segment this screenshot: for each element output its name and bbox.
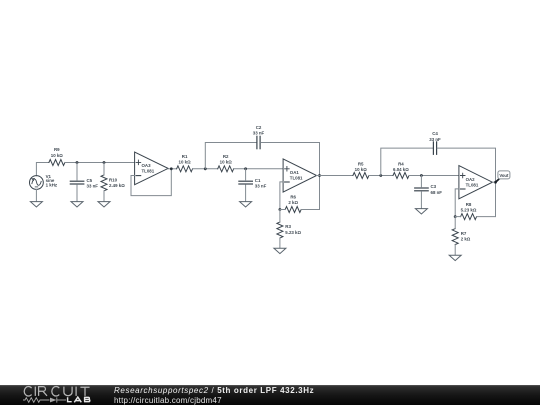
capacitor C4 (433, 142, 436, 154)
node C2 branch junction (204, 167, 207, 170)
op-amp OA1 (283, 159, 317, 192)
svg-text:OA3: OA3 (142, 163, 152, 168)
node OA2 output junction (494, 181, 497, 184)
ground below C5 (71, 202, 83, 207)
wire R4 to OA2 + input (409, 175, 459, 177)
node C5 junction (76, 161, 79, 164)
ground below R10 (98, 202, 110, 207)
svg-text:2 kΩ: 2 kΩ (288, 200, 298, 205)
resistor R7 (452, 229, 458, 245)
svg-text:OA2: OA2 (466, 177, 476, 182)
wire R2 to OA1 + input (234, 168, 283, 170)
svg-text:R5: R5 (358, 161, 364, 166)
wire OA3 feedback loop (131, 169, 171, 196)
ground below C3 (415, 209, 427, 214)
svg-text:2.49 kΩ: 2.49 kΩ (109, 183, 125, 188)
node OA3 output junction (170, 167, 173, 170)
wire OA3 output (168, 168, 177, 170)
svg-text:Vout: Vout (499, 173, 509, 178)
svg-text:68 nF: 68 nF (431, 190, 443, 195)
wire OA2 output (492, 181, 495, 183)
node C1 junction (244, 167, 247, 170)
wire C4 branch left (381, 148, 433, 175)
ground below V1 (30, 202, 42, 207)
svg-text:33 nF: 33 nF (87, 184, 99, 189)
resistor R4 (393, 173, 409, 179)
svg-text:C4: C4 (432, 131, 438, 136)
node C4 branch junction (379, 174, 382, 177)
svg-text:R3: R3 (285, 224, 291, 229)
resistor R10 (101, 175, 107, 191)
wire R9 to OA3 + input (65, 162, 135, 164)
node OA1 feedback junction (279, 208, 282, 211)
wire V1 bottom to ground (35, 189, 37, 201)
capacitor C5 (70, 181, 84, 184)
wire R6 right to OA1 output (301, 176, 319, 210)
wire R8 right to OA2 output (477, 182, 496, 216)
svg-text:C2: C2 (256, 125, 262, 130)
resistor R3 (277, 222, 283, 238)
wire OA1 - input to feedback node (280, 182, 283, 210)
resistor R6 (285, 207, 301, 213)
svg-text:TL081: TL081 (142, 168, 155, 173)
wire R5 to R4 (369, 175, 393, 177)
wire R1 to R2 (193, 168, 218, 170)
svg-text:2 kΩ: 2 kΩ (461, 237, 471, 242)
svg-text:10 kΩ: 10 kΩ (51, 153, 64, 158)
svg-text:R7: R7 (461, 231, 467, 236)
svg-text:R6: R6 (290, 195, 296, 200)
svg-text:TL081: TL081 (466, 182, 479, 187)
svg-text:R1: R1 (182, 154, 188, 159)
svg-text:10 kΩ: 10 kΩ (179, 159, 192, 164)
resistor R8 (461, 214, 477, 220)
svg-text:R8: R8 (466, 202, 472, 207)
svg-text:6.04 kΩ: 6.04 kΩ (393, 167, 409, 172)
svg-text:R2: R2 (223, 154, 229, 159)
capacitor C3 (415, 188, 429, 191)
footer bar (0, 385, 540, 405)
wire C4 branch right (437, 148, 495, 182)
svg-text:C5: C5 (87, 178, 93, 183)
node OA2 feedback junction (454, 215, 457, 218)
ground below R7 (449, 255, 461, 260)
resistor R2 (218, 166, 234, 172)
svg-text:1 kHz: 1 kHz (46, 182, 58, 187)
wire V1 top to R9 (36, 163, 49, 176)
wire C2 branch left (205, 143, 256, 169)
capacitor C1 (239, 181, 253, 184)
Vout flag connector (496, 179, 500, 182)
svg-text:R9: R9 (54, 147, 60, 152)
svg-text:33 nF: 33 nF (255, 183, 267, 188)
svg-text:10 kΩ: 10 kΩ (220, 159, 233, 164)
node OA1 output junction (318, 174, 321, 177)
CircuitLab logo (0, 385, 110, 405)
svg-text:33 nF: 33 nF (253, 130, 265, 135)
svg-text:OA1: OA1 (290, 170, 300, 175)
svg-text:C1: C1 (255, 178, 261, 183)
svg-text:5.23 kΩ: 5.23 kΩ (461, 207, 477, 212)
node Vout flag (498, 171, 510, 179)
resistor R1 (177, 166, 193, 172)
voltage source V1 (30, 176, 44, 190)
resistor R9 (49, 160, 65, 166)
capacitor C2 (257, 136, 260, 148)
svg-text:TL081: TL081 (290, 176, 303, 181)
wire OA1 output to R5 (317, 175, 353, 177)
node R10 junction (103, 161, 106, 164)
svg-text:5.23 kΩ: 5.23 kΩ (285, 230, 301, 235)
ground below C1 (240, 202, 252, 207)
svg-text:C3: C3 (431, 184, 437, 189)
node C3 junction (420, 174, 423, 177)
svg-text:R4: R4 (398, 161, 404, 166)
wire OA2 - input to feedback node (455, 189, 459, 217)
op-amp OA2 (459, 166, 493, 199)
wire C2 branch right (261, 143, 320, 176)
op-amp OA3 (135, 152, 169, 185)
ground below R3 (274, 248, 286, 253)
resistor R5 (353, 173, 369, 179)
svg-text:10 kΩ: 10 kΩ (355, 167, 368, 172)
svg-text:33 nF: 33 nF (429, 137, 441, 142)
svg-text:R10: R10 (109, 178, 118, 183)
